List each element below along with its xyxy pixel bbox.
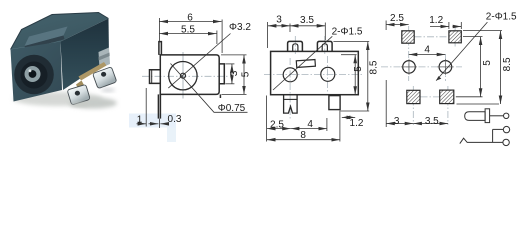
svg-text:1: 1	[137, 114, 143, 125]
barrel center hole	[29, 70, 37, 78]
centerline vertical	[182, 52, 184, 99]
svg-text:3: 3	[229, 70, 240, 76]
bottom: ext for 1	[145, 88, 147, 127]
svg-text:4: 4	[424, 44, 430, 55]
bottom-right foot	[219, 94, 221, 98]
svg-text:1.2: 1.2	[350, 118, 364, 129]
bottom dim 3 / 3.5	[386, 123, 413, 125]
svg-text:2-Φ1.5: 2-Φ1.5	[486, 12, 517, 23]
dim 6	[159, 21, 221, 23]
barrel circle	[169, 61, 197, 89]
svg-text:0.3: 0.3	[168, 114, 182, 125]
solder lug front	[67, 84, 90, 105]
svg-text:1.2: 1.2	[429, 15, 443, 26]
svg-text:2.5: 2.5	[390, 13, 404, 24]
top dim 2.5	[385, 21, 387, 31]
jack top face	[11, 13, 109, 50]
bottom ext lines	[266, 96, 268, 142]
brass contact strip	[79, 62, 107, 81]
body top view	[271, 51, 359, 94]
svg-text:2-Φ1.5: 2-Φ1.5	[332, 26, 363, 37]
svg-text:8.5: 8.5	[368, 60, 379, 74]
ext lines 6 / 5.5	[158, 18, 160, 41]
svg-text:Φ3.2: Φ3.2	[229, 22, 251, 33]
leader phi3.2	[168, 34, 230, 89]
bottom hook	[329, 96, 340, 110]
dim line 1 / 0.3	[137, 123, 147, 125]
svg-text:3: 3	[394, 116, 400, 127]
center pin circle	[181, 73, 186, 78]
svg-text:6: 6	[187, 13, 193, 24]
top mounting ear left	[288, 41, 303, 51]
highlight tint	[129, 114, 176, 128]
switch symbol pins 2-3	[460, 138, 503, 143]
hole left	[403, 61, 416, 74]
top-left tab	[159, 42, 162, 55]
dim 8	[267, 139, 340, 141]
left bushing bump	[150, 70, 161, 84]
right dim 5	[463, 36, 483, 38]
lug ground shadows	[71, 103, 89, 107]
body front view	[150, 42, 225, 119]
dim 4	[409, 54, 446, 56]
top dim 1.2 (outside arrows)	[448, 22, 450, 29]
right dim 5	[341, 54, 357, 56]
pad top-left	[402, 31, 414, 43]
jack right side face	[61, 19, 110, 91]
leader 2-phi1.5 footprint	[436, 22, 487, 81]
svg-text:Φ0.75: Φ0.75	[218, 103, 246, 114]
hole crosshairs	[401, 59, 453, 75]
pad bottom-right	[440, 90, 454, 104]
barrel metal ring	[25, 66, 41, 82]
leader phi0.75	[171, 64, 248, 113]
svg-text:3: 3	[276, 15, 282, 26]
svg-text:8: 8	[300, 130, 306, 141]
rear metal pin block	[99, 48, 111, 69]
dimensions footprint	[386, 21, 502, 128]
texts top view	[270, 15, 379, 141]
solder lug rear	[93, 67, 117, 89]
dim 2.5 / 4	[267, 128, 291, 130]
svg-text:5: 5	[241, 71, 252, 77]
dim 1.2	[342, 116, 355, 118]
left flange leg below body	[157, 94, 159, 118]
dim 5.5	[159, 33, 216, 35]
pad top-right	[449, 31, 461, 43]
ext + dim right side 3	[225, 63, 234, 65]
svg-text:3.5: 3.5	[300, 15, 314, 26]
shadow under jack	[13, 92, 103, 106]
jack top ridge	[25, 27, 68, 47]
top dim 3 / 3.5	[267, 22, 269, 48]
diagonal leader line 2-phi1.5	[273, 36, 332, 90]
ear right slot arch	[322, 44, 327, 52]
ear left slot arch	[293, 44, 298, 52]
texts front view	[137, 13, 252, 126]
right tab	[219, 64, 224, 84]
bottom ext	[385, 80, 387, 127]
hole right	[321, 67, 335, 81]
jack front face	[11, 42, 63, 102]
small inner rect	[296, 60, 315, 68]
centerlines	[264, 74, 362, 76]
svg-text:5: 5	[353, 66, 364, 72]
svg-text:3.5: 3.5	[425, 116, 439, 127]
ext + dim right side 5	[221, 54, 247, 56]
svg-text:2.5: 2.5	[270, 119, 284, 130]
barrel recess	[14, 55, 54, 95]
svg-text:5.5: 5.5	[181, 25, 195, 36]
centerlines	[381, 66, 462, 68]
svg-text:8.5: 8.5	[502, 57, 513, 71]
top mounting ear right	[317, 41, 332, 51]
hole left	[283, 68, 297, 82]
bottom pin tab with notch	[284, 95, 298, 113]
dimensions top view	[267, 22, 370, 142]
pad bottom-left	[407, 90, 420, 103]
svg-text:5: 5	[482, 60, 493, 66]
right dim 8.5	[463, 30, 502, 32]
body	[160, 55, 219, 95]
dimensions front view	[137, 18, 248, 128]
right dim 8.5	[333, 41, 369, 43]
plug symbol pin 1	[465, 112, 485, 121]
svg-text:4: 4	[307, 119, 313, 130]
hole right	[439, 61, 452, 74]
centerline horizontal	[142, 75, 228, 77]
texts footprint	[390, 12, 517, 128]
